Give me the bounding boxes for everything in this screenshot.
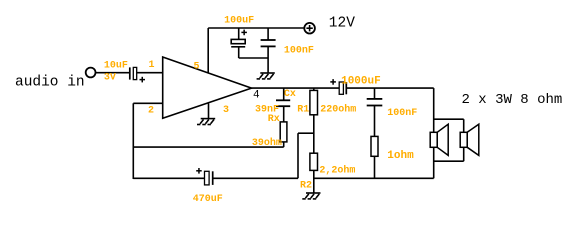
capacitor 1000uF	[330, 79, 346, 94]
svg-text:100nF: 100nF	[284, 46, 314, 57]
wire pin3	[208, 104, 210, 119]
capacitor 100nF right	[367, 88, 383, 136]
svg-text:10uF: 10uF	[104, 61, 128, 72]
capacitor Cx 39nF	[276, 88, 290, 122]
svg-text:1000uF: 1000uF	[341, 75, 381, 87]
wire C-10uF to pin1	[137, 72, 164, 74]
svg-text:1ohm: 1ohm	[387, 150, 414, 162]
svg-text:100uF: 100uF	[224, 16, 254, 27]
wire 100uF to 100nF join	[239, 57, 268, 59]
wire speaker loop right	[463, 119, 465, 161]
wire output rail left	[252, 87, 340, 89]
resistor Rx 39ohm	[280, 122, 287, 142]
wire pin2 vertical	[132, 103, 134, 179]
ground G3 R2	[302, 193, 320, 199]
resistor R2 2,2ohm	[310, 153, 318, 193]
wire pin2 stub	[133, 102, 163, 104]
capacitor 470uF	[196, 168, 213, 185]
capacitor 100nF top	[261, 28, 276, 73]
svg-text:12V: 12V	[329, 15, 355, 31]
svg-text:Rx: Rx	[268, 114, 280, 125]
svg-text:R2: R2	[300, 181, 312, 192]
svg-text:2,2ohm: 2,2ohm	[319, 164, 355, 176]
wire Rx bottom	[283, 142, 285, 147]
op-amp U1 triangle	[163, 57, 252, 118]
speaker LS2	[460, 124, 479, 155]
wire right vertical	[433, 88, 435, 178]
svg-text:220ohm: 220ohm	[320, 104, 356, 116]
wire 470uF line left	[133, 177, 204, 179]
resistor 1ohm	[371, 136, 378, 178]
wire input to C-10uF	[96, 72, 130, 74]
svg-text:1: 1	[149, 60, 155, 71]
speaker LS1	[430, 124, 448, 155]
svg-text:5: 5	[194, 62, 200, 73]
wire speaker loop top	[434, 118, 464, 120]
capacitor 10uF	[130, 67, 145, 82]
12V terminal	[304, 23, 315, 34]
svg-text:R1: R1	[297, 105, 309, 116]
svg-text:audio in: audio in	[15, 75, 85, 91]
wire top rail to 12V	[208, 27, 304, 29]
wire bottom rail	[314, 177, 434, 179]
resistor R1 220ohm	[310, 88, 318, 153]
wire Rx return to pin2 node	[133, 146, 283, 148]
svg-text:2: 2	[148, 106, 154, 117]
wire output rail right	[346, 87, 433, 89]
svg-text:470uF: 470uF	[193, 194, 223, 205]
svg-text:4: 4	[253, 90, 260, 102]
ground G2 pin3	[197, 119, 215, 125]
svg-text:Cx: Cx	[284, 89, 296, 100]
capacitor 100uF	[231, 28, 247, 58]
ground G1 top	[257, 73, 275, 79]
wire speaker loop bottom	[434, 160, 464, 162]
svg-text:100nF: 100nF	[387, 108, 417, 119]
wire jog vertical	[297, 133, 299, 178]
svg-text:3: 3	[223, 105, 229, 116]
wire pin5 vertical	[207, 28, 209, 73]
svg-text:2 x 3W 8 ohm: 2 x 3W 8 ohm	[462, 92, 563, 108]
svg-text:3V: 3V	[104, 73, 116, 84]
wire jog horizontal	[298, 132, 314, 134]
input terminal J1	[86, 68, 96, 78]
wire 470uF line right	[213, 177, 298, 179]
